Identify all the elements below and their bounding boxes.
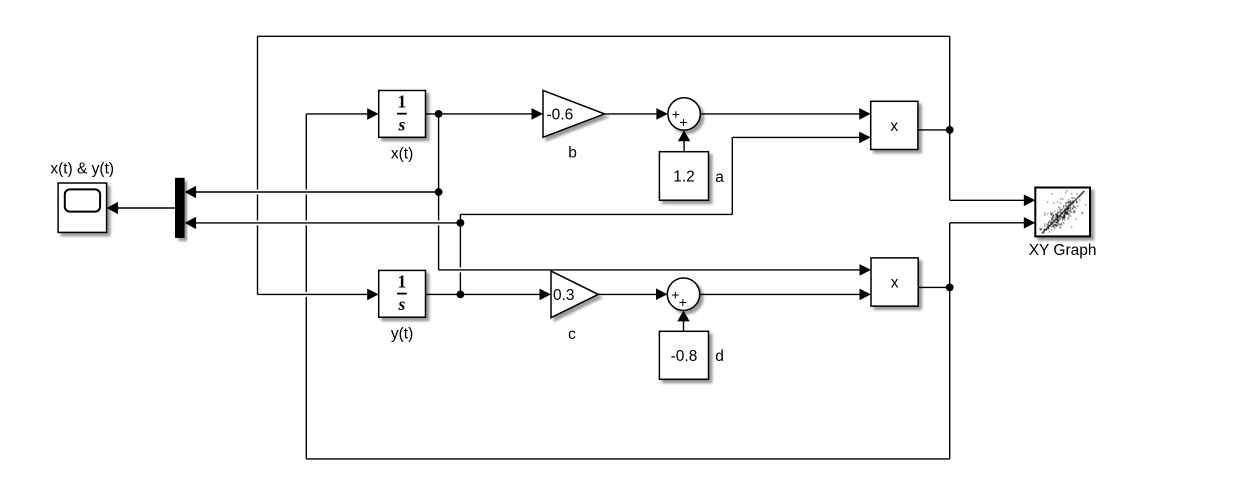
svg-text:+: +: [679, 114, 687, 130]
svg-text:-0.6: -0.6: [547, 107, 574, 124]
svg-text:x: x: [890, 118, 898, 135]
svg-text:+: +: [679, 294, 687, 310]
svg-text:1: 1: [398, 271, 407, 291]
svg-text:a: a: [715, 169, 724, 186]
svg-text:1: 1: [398, 92, 407, 112]
svg-text:y(t): y(t): [391, 325, 413, 342]
svg-text:c: c: [568, 326, 576, 343]
svg-text:XY Graph: XY Graph: [1029, 242, 1097, 259]
svg-text:s: s: [397, 114, 405, 134]
svg-text:0.3: 0.3: [553, 287, 575, 304]
svg-text:x(t) & y(t): x(t) & y(t): [50, 161, 114, 178]
svg-text:x: x: [891, 275, 899, 292]
svg-text:s: s: [397, 294, 405, 314]
svg-text:-0.8: -0.8: [671, 348, 698, 365]
svg-text:x(t): x(t): [391, 146, 413, 163]
svg-text:d: d: [715, 348, 724, 365]
svg-text:b: b: [568, 145, 577, 162]
svg-text:1.2: 1.2: [673, 168, 695, 185]
